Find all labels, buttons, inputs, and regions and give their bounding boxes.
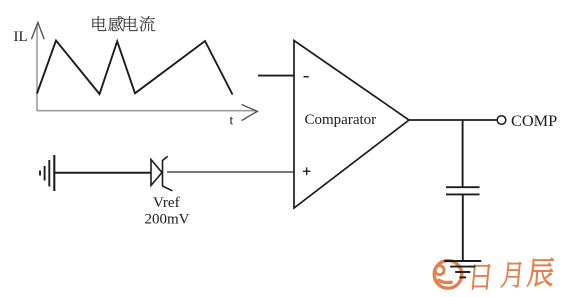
inductor current waveform xyxy=(37,41,233,95)
ground (bottom) xyxy=(444,261,481,277)
watermark logo circle Q xyxy=(434,261,462,289)
capacitor C1 xyxy=(446,187,480,194)
svg-text:Vref: Vref xyxy=(153,195,180,211)
wire: diode cathode to non-inverting input xyxy=(167,171,294,173)
svg-text:IL: IL xyxy=(14,29,28,45)
diode D1 (Vref reference) xyxy=(151,156,172,191)
waveform x-axis xyxy=(37,105,257,121)
svg-text:t: t xyxy=(230,113,234,128)
ground (left, rotated) xyxy=(40,155,54,191)
comparator inverting input label - xyxy=(304,76,309,78)
svg-text:200mV: 200mV xyxy=(145,212,190,228)
wire: output branch down to capacitor xyxy=(462,120,464,187)
wire: ground to diode anode xyxy=(55,172,152,174)
comparator non-inverting input label + xyxy=(303,167,311,175)
waveform y-axis xyxy=(31,23,44,112)
label: 电感电流 (inductor current) xyxy=(92,16,155,31)
wire: capacitor to ground xyxy=(462,194,464,261)
op-amp comparator U1 xyxy=(294,41,409,209)
watermark text 日月辰 xyxy=(472,258,554,290)
wire: stub to inverting input xyxy=(258,75,294,77)
svg-text:Comparator: Comparator xyxy=(305,112,377,128)
svg-text:COMP: COMP xyxy=(511,111,557,130)
wire: comparator output xyxy=(408,119,497,121)
output terminal circle xyxy=(497,116,506,125)
